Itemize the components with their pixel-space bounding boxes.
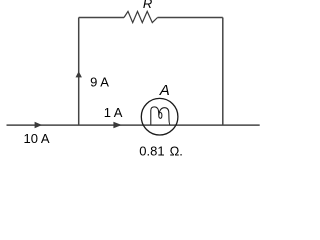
- svg-text:0.81: 0.81: [139, 144, 164, 159]
- ammeter coil symbol: [151, 107, 170, 125]
- svg-text:A: A: [159, 82, 170, 99]
- svg-text:1 A: 1 A: [104, 105, 123, 120]
- svg-text:Ω.: Ω.: [170, 144, 183, 159]
- wire bottom horizontal: [7, 124, 260, 126]
- wire top right segment: [158, 17, 223, 19]
- wire top left segment: [79, 17, 124, 19]
- svg-text:R: R: [143, 0, 152, 11]
- arrow 1 A current: [113, 122, 121, 129]
- wire right vertical: [222, 18, 224, 126]
- wire left vertical branch: [78, 18, 80, 126]
- resistor R: [124, 11, 158, 22]
- svg-text:9 A: 9 A: [90, 74, 109, 89]
- arrow 9 A current: [76, 71, 82, 77]
- svg-text:10 A: 10 A: [24, 131, 50, 146]
- arrow 10 A current: [35, 122, 42, 129]
- ammeter circle: [141, 98, 178, 135]
